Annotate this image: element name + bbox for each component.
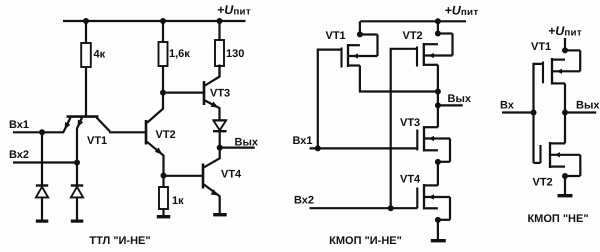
label Вх2 (КМОП И-НЕ) bbox=[294, 195, 314, 207]
junction input node (КМОП НЕ) bbox=[531, 110, 537, 116]
wire 1,6к to node A bbox=[162, 66, 164, 93]
transistor VT3 collector bbox=[205, 65, 220, 86]
power label +Uпит (ТТЛ) bbox=[217, 3, 251, 17]
label Вх1 bbox=[9, 119, 29, 131]
label Вых (КМОП И-НЕ) bbox=[448, 93, 472, 105]
wire VT4 source to ground bbox=[437, 220, 439, 239]
junction VT4 source/substrate bbox=[435, 217, 441, 223]
junction VT3 source/substrate bbox=[435, 159, 441, 165]
wire VT2 drain to output node bbox=[437, 65, 439, 106]
svg-text:VT1: VT1 bbox=[531, 41, 551, 53]
label Вых (ТТЛ) bbox=[235, 136, 259, 148]
junction rail/R1 (ТТЛ) bbox=[83, 18, 89, 24]
wire node A to VT3 base bbox=[163, 91, 203, 93]
wire Вх2 to diode VD2 bbox=[76, 163, 78, 186]
wire VT2 gate lead bbox=[391, 49, 417, 208]
label VT3 bbox=[210, 88, 230, 100]
svg-text:Вх2: Вх2 bbox=[294, 195, 314, 207]
junction output node (КМОП НЕ) bbox=[562, 110, 568, 116]
junction VT2 emitter / 1к / VT4 base bbox=[161, 173, 167, 179]
node A junction (1,6к / VT2 collector / VT3 base) bbox=[160, 90, 166, 96]
svg-text:1к: 1к bbox=[172, 195, 184, 207]
wire VT1 collector to VT2 base bbox=[109, 131, 145, 133]
wire +Uпит stub (КМОП НЕ) bbox=[564, 38, 566, 50]
transistor VT1 collector bbox=[97, 118, 111, 132]
label VT2 (КМОП И-НЕ) bbox=[403, 30, 423, 42]
label Вх (КМОП НЕ) bbox=[500, 100, 515, 112]
junction VT2 source/substrate (КМОП НЕ) bbox=[562, 173, 568, 179]
transistor VT1 (КМОП И-НЕ) bbox=[342, 35, 378, 68]
transistor VT2 (КМОП НЕ) bbox=[541, 142, 581, 176]
label Вх1 (КМОП И-НЕ) bbox=[293, 135, 313, 147]
transistor VT2 base bar bbox=[145, 120, 148, 145]
wire rail to resistor 1,6к bbox=[162, 21, 164, 42]
resistor R3 130 bbox=[215, 40, 224, 66]
transistor VT2 emitter bbox=[147, 142, 164, 176]
wire VT2 source to rail bbox=[437, 21, 439, 33]
diode VD3 bbox=[213, 120, 227, 147]
label VT1 (КМОП И-НЕ) bbox=[326, 30, 346, 42]
svg-text:VT4: VT4 bbox=[400, 174, 421, 186]
label Вх2 bbox=[9, 149, 29, 161]
svg-text:Вых: Вых bbox=[576, 99, 600, 111]
label VT2 bbox=[156, 129, 176, 141]
transistor VT1 emitter 1 bbox=[63, 118, 70, 133]
svg-text:VT3: VT3 bbox=[400, 117, 420, 129]
diode VD1 bbox=[36, 186, 48, 220]
label 1,6к bbox=[169, 48, 190, 60]
wire gate riser to VT2 (КМОП НЕ) bbox=[532, 113, 534, 163]
transistor VT4 (КМОП И-НЕ) bbox=[417, 184, 450, 220]
wire output Вых (КМОП НЕ) bbox=[565, 111, 596, 113]
junction rail/R2 (ТТЛ) bbox=[160, 18, 166, 24]
caption КМОП "И-НЕ" bbox=[329, 235, 402, 247]
transistor VT4 collector bbox=[204, 148, 220, 168]
transistor VT1 base bar bbox=[67, 115, 99, 118]
wire input Вх (КМОП НЕ) bbox=[502, 111, 534, 113]
svg-text:Вх1: Вх1 bbox=[293, 135, 313, 147]
wire VT2 gate lead (КМОП НЕ) bbox=[534, 162, 541, 164]
svg-text:VT3: VT3 bbox=[210, 88, 230, 100]
wire rail to resistor 4к bbox=[85, 21, 87, 43]
transistor VT1 emitter 2 bbox=[77, 118, 83, 163]
label VT1 (КМОП НЕ) bbox=[531, 41, 551, 53]
wire VT1 drain to output bbox=[360, 66, 438, 92]
diode VD2 bbox=[71, 186, 83, 220]
transistor VT3 base bar bbox=[203, 81, 206, 105]
label Вых (КМОП НЕ) bbox=[576, 99, 600, 111]
label VT4 bbox=[221, 169, 242, 181]
transistor VT1 (КМОП НЕ) bbox=[543, 50, 580, 84]
wire VT3 source to VT4 drain bbox=[437, 162, 439, 186]
resistor R2 1,6к bbox=[159, 42, 168, 66]
wire VT1 drain to output (КМОП НЕ) bbox=[564, 83, 566, 112]
wire Вх1 to diode VD1 bbox=[41, 132, 43, 185]
svg-text:Вх: Вх bbox=[500, 100, 515, 112]
junction VT2 source/substrate bbox=[435, 31, 441, 37]
svg-text:130: 130 bbox=[226, 48, 244, 60]
wire input Вх2 bbox=[13, 161, 77, 163]
wire +Uпит power rail (ТТЛ) bbox=[63, 20, 246, 22]
ground (КМОП И-НЕ) bbox=[431, 239, 446, 242]
svg-text:VT2: VT2 bbox=[533, 177, 553, 189]
svg-text:Вх1: Вх1 bbox=[9, 119, 29, 131]
wire VT2 emitter node to VT4 base bbox=[164, 175, 203, 177]
ground below 1к bbox=[157, 215, 171, 218]
power label +Uпит (КМОП НЕ) bbox=[548, 24, 582, 38]
svg-text:VT2: VT2 bbox=[403, 30, 423, 42]
wire input Вх2 (КМОП И-НЕ) bbox=[310, 207, 418, 209]
svg-text:VT1: VT1 bbox=[326, 30, 346, 42]
transistor VT2 (КМОП И-НЕ) bbox=[417, 34, 453, 67]
junction VT1 source/substrate bbox=[357, 31, 363, 37]
svg-text:Вх2: Вх2 bbox=[9, 149, 29, 161]
svg-text:КМОП "И-НЕ": КМОП "И-НЕ" bbox=[329, 235, 402, 247]
svg-text:1,6к: 1,6к bbox=[169, 48, 190, 60]
ground (КМОП НЕ) bbox=[558, 194, 573, 197]
junction rail/VT2 source bbox=[435, 18, 441, 24]
svg-text:КМОП "НЕ": КМОП "НЕ" bbox=[527, 213, 588, 225]
wire +Uпит power rail (КМОП И-НЕ) bbox=[360, 20, 466, 22]
wire VT1 gate lead (КМОП НЕ) bbox=[534, 64, 544, 113]
junction rail/R3 (ТТЛ) bbox=[217, 18, 223, 24]
junction output node (Вых КМОП И-НЕ) bbox=[435, 102, 441, 108]
label 130 bbox=[226, 48, 244, 60]
caption ТТЛ "И-НЕ" bbox=[89, 235, 150, 247]
resistor R4 1к bbox=[159, 187, 168, 209]
wire VT2 drain to output (КМОП НЕ) bbox=[564, 113, 566, 144]
junction VT2 gate / Вх2 bbox=[388, 205, 394, 211]
wire VT2 source to ground (КМОП НЕ) bbox=[564, 176, 566, 194]
svg-text:VT4: VT4 bbox=[221, 169, 242, 181]
label VT4 (КМОП И-НЕ) bbox=[400, 174, 421, 186]
resistor R1 4к bbox=[81, 43, 91, 67]
svg-text:Вых: Вых bbox=[448, 93, 472, 105]
junction VT1 gate / Вх1 bbox=[315, 145, 321, 151]
label VT2 (КМОП НЕ) bbox=[533, 177, 553, 189]
svg-text:4к: 4к bbox=[94, 49, 106, 61]
wire 4к to VT1 base bbox=[85, 67, 87, 116]
ground below VD1 bbox=[36, 220, 49, 223]
caption КМОП "НЕ" bbox=[527, 213, 588, 225]
svg-text:Вых: Вых bbox=[235, 136, 259, 148]
svg-text:VT2: VT2 bbox=[156, 129, 176, 141]
ground below VD2 bbox=[71, 220, 84, 223]
label 4к bbox=[94, 49, 106, 61]
label VT1 bbox=[87, 135, 107, 147]
wire rail to resistor 130 bbox=[218, 21, 220, 40]
wire VT3 drain to output bbox=[437, 105, 439, 127]
junction output/VT1 drain link bbox=[435, 89, 441, 95]
svg-text:ТТЛ "И-НЕ": ТТЛ "И-НЕ" bbox=[89, 235, 150, 247]
wire output Вых (КМОП И-НЕ) bbox=[438, 104, 463, 106]
transistor VT2 collector bbox=[147, 93, 163, 123]
transistor VT4 emitter bbox=[204, 185, 220, 214]
ground below VT4 bbox=[213, 213, 227, 216]
wire VT1 source to rail bbox=[359, 21, 361, 34]
transistor VT3 (КМОП И-НЕ) bbox=[417, 126, 450, 162]
transistor VT3 emitter bbox=[205, 101, 220, 121]
wire input Вх1 (КМОП И-НЕ) bbox=[310, 147, 418, 149]
wire 130 to VT3 collector bbox=[218, 66, 220, 76]
wire output Вых (ТТЛ) bbox=[220, 147, 255, 149]
transistor VT4 base bar bbox=[202, 164, 205, 189]
svg-text:VT1: VT1 bbox=[87, 135, 107, 147]
junction Вх1/diode VD1 bbox=[39, 129, 45, 135]
junction Вх2/VT1 emitter 2/diode VD2 bbox=[74, 160, 80, 166]
wire node to resistor 1к bbox=[162, 176, 164, 188]
output node junction (Вых ТТЛ) bbox=[217, 145, 223, 151]
label 1к bbox=[172, 195, 184, 207]
wire VT1 gate lead bbox=[318, 50, 342, 149]
wire input Вх1 bbox=[13, 131, 64, 133]
label VT3 (КМОП И-НЕ) bbox=[400, 117, 420, 129]
power label +Uпит (КМОП И-НЕ) bbox=[445, 4, 479, 18]
wire 1к to ground bbox=[162, 209, 164, 215]
junction VT1 source/substrate (КМОП НЕ) bbox=[562, 47, 568, 53]
